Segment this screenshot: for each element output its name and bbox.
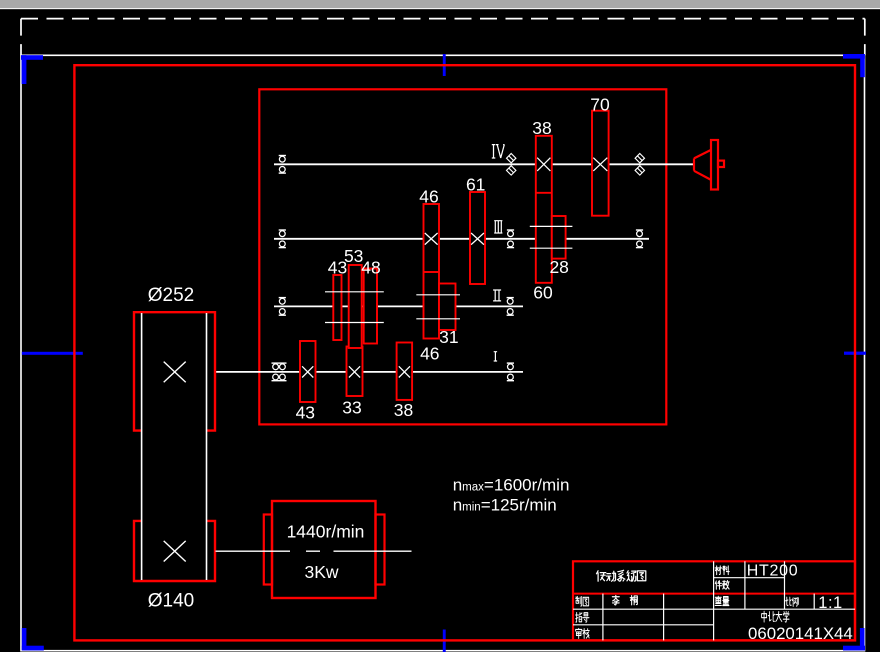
gear 46 shaft III / 46 shaft II block <box>424 204 440 339</box>
bevel gear output symbol <box>694 150 711 180</box>
bearing shaft IV left <box>279 155 286 157</box>
bearing shaft II right <box>507 297 514 299</box>
gear 43 shaft II <box>333 275 341 340</box>
svg-text:43: 43 <box>296 402 315 422</box>
title block vertical v5 <box>602 594 604 641</box>
motor left tab <box>264 515 272 585</box>
title block outer border <box>573 561 855 640</box>
dashed plot margin border <box>21 19 865 56</box>
drawing frame red border <box>74 65 855 640</box>
svg-text:38: 38 <box>532 118 551 138</box>
title block horizontal h3 <box>573 624 714 626</box>
gearbox boundary box <box>259 89 666 424</box>
clutch diamonds shaft IV right <box>635 154 644 163</box>
x mark gear 46 shaft III <box>425 233 438 245</box>
title block red divider horizontal <box>573 593 855 595</box>
title block vertical v3 <box>784 561 786 609</box>
shaft II <box>274 305 523 307</box>
label drawn-by <box>576 596 582 606</box>
label scale <box>786 597 792 605</box>
svg-text:46: 46 <box>419 186 438 206</box>
gear 43 shaft I <box>300 341 316 402</box>
svg-text:70: 70 <box>590 94 610 114</box>
name Li Tong <box>612 595 619 604</box>
x mark gear 70 shaft IV <box>593 158 607 171</box>
bearing shaft II left <box>279 297 286 299</box>
gear divider 38/60 <box>536 192 552 194</box>
svg-text:38: 38 <box>394 400 413 420</box>
gear 38 shaft IV / 60 shaft III block <box>536 136 552 283</box>
gear 38 shaft I <box>397 343 413 400</box>
bearing shaft I right <box>507 362 514 364</box>
gear divider 46/46 <box>424 271 440 273</box>
svg-text:48: 48 <box>361 257 380 277</box>
svg-text:3Kw: 3Kw <box>304 562 338 582</box>
label shaft I numeral <box>494 352 497 361</box>
mesh line cluster II lower <box>325 322 384 324</box>
mesh line 46/31 upper <box>416 294 460 296</box>
gear 31 shaft II <box>439 284 456 331</box>
blue corner mark bottom-right <box>860 628 865 650</box>
mesh line 46/31 lower <box>416 318 460 320</box>
title block horizontal h2 <box>573 608 855 610</box>
x mark gear 38 shaft I <box>399 366 410 377</box>
drawing number <box>748 624 853 643</box>
clutch diamonds shaft IV left <box>507 154 516 163</box>
title block vertical v6 <box>663 594 665 641</box>
svg-text:06020141X44: 06020141X44 <box>748 624 853 643</box>
blue tick top middle <box>443 54 446 76</box>
shaft I <box>216 371 524 373</box>
motor body <box>272 501 376 598</box>
gear 33 shaft I <box>347 347 363 397</box>
shaft IV <box>274 163 695 165</box>
title block horizontal h1 <box>714 577 785 579</box>
belt line right <box>206 313 208 580</box>
x mark gear 43 shaft I <box>302 366 313 377</box>
blue corner mark bottom-left <box>22 628 27 650</box>
x mark gear 38 shaft IV <box>537 158 550 171</box>
gear 70 shaft IV <box>592 111 609 216</box>
x mark pulley lower <box>164 541 186 562</box>
title block vertical v1 <box>713 561 715 640</box>
svg-text:1440r/min: 1440r/min <box>287 522 365 542</box>
gear 28 shaft III <box>552 216 566 259</box>
svg-text:Ø140: Ø140 <box>148 591 194 612</box>
blue corner mark top-right <box>843 54 865 59</box>
gear 53 shaft II <box>349 265 362 348</box>
title block vertical v4 <box>813 594 815 610</box>
svg-text:33: 33 <box>342 397 361 417</box>
svg-text:60: 60 <box>533 283 553 303</box>
svg-text:61: 61 <box>466 174 485 194</box>
mesh line 60/28 upper <box>530 225 573 227</box>
pulley big upper <box>134 312 215 430</box>
x mark gear 61 shaft III <box>471 233 484 245</box>
blue corner mark top-left <box>21 55 43 60</box>
motor centerline <box>216 550 412 552</box>
blue tick bottom middle <box>443 630 446 652</box>
gear 48 shaft II <box>364 269 377 344</box>
svg-text:HT200: HT200 <box>747 562 799 579</box>
title text transmission system drawing <box>597 571 606 581</box>
svg-text:Ø252: Ø252 <box>148 285 194 306</box>
label shaft III numeral <box>494 221 502 233</box>
blue tick right middle <box>844 352 866 355</box>
gear 61 shaft III <box>470 192 485 284</box>
svg-text:46: 46 <box>420 344 439 364</box>
motor right tab <box>376 515 385 585</box>
svg-text:31: 31 <box>439 327 458 347</box>
school name Zhongbei University <box>762 611 767 622</box>
bearing shaft III right <box>636 229 643 231</box>
label weight <box>715 596 721 605</box>
belt line left <box>141 313 143 580</box>
toolbar gray strip <box>0 0 880 8</box>
label shaft II numeral <box>493 290 501 301</box>
double bearing shaft I left <box>272 362 287 364</box>
label checked <box>576 628 582 638</box>
blue tick left middle <box>22 352 83 355</box>
label advisor <box>576 613 582 623</box>
pulley small lower <box>134 521 215 581</box>
x mark gear 33 shaft I <box>349 366 360 377</box>
bearing shaft III left <box>279 229 286 231</box>
svg-text:1:1: 1:1 <box>818 594 842 612</box>
mesh line cluster II upper <box>325 291 384 293</box>
shaft III <box>274 238 649 240</box>
label material <box>715 566 722 575</box>
label shaft IV numeral <box>492 145 505 158</box>
bearing shaft III middle <box>507 229 514 231</box>
svg-text:28: 28 <box>549 257 568 277</box>
mesh line 60/28 lower <box>530 247 573 249</box>
label piece count <box>715 581 721 589</box>
x mark pulley upper <box>164 362 186 383</box>
title block vertical v2 <box>744 561 746 609</box>
